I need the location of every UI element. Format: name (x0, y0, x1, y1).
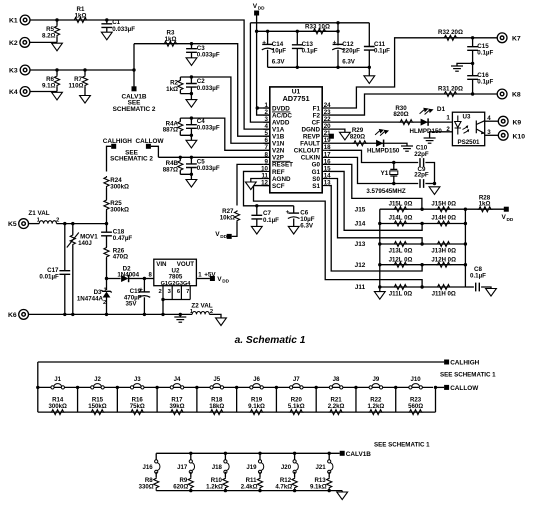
svg-text:V1B: V1B (272, 134, 285, 141)
jumper J18 (224, 460, 229, 474)
wire C15 upper lead (472, 38, 474, 47)
wire chain2 leg J21 bottom (328, 489, 330, 490)
wire CALHIGH rail (38, 361, 444, 363)
junction R33 rail2 (336, 30, 339, 33)
connector K3 (20, 65, 30, 75)
junction R2C2 bottom (190, 92, 193, 95)
resistor R6 (54, 75, 59, 87)
svg-text:7805: 7805 (169, 274, 183, 281)
svg-text:K4: K4 (9, 89, 18, 96)
svg-text:10kΩ: 10kΩ (220, 214, 235, 221)
wire AVDD vertical (250, 23, 269, 122)
svg-text:0.1µF: 0.1µF (477, 79, 493, 86)
wire S0 to J13 (329, 179, 422, 245)
jumper J16 (155, 460, 160, 474)
wire G0 to J15 (329, 164, 422, 209)
wire U2 VOUT (196, 278, 210, 280)
svg-text:J15L 0Ω: J15L 0Ω (389, 200, 413, 207)
LED D1 arrows (420, 108, 433, 114)
svg-text:J13H 0Ω: J13H 0Ω (431, 247, 456, 254)
junction C7 (255, 204, 258, 207)
svg-text:J2: J2 (94, 376, 101, 383)
svg-text:AVDD: AVDD (272, 119, 290, 126)
junction left bus J14 (378, 222, 381, 225)
junction chain1 row 3 (155, 386, 158, 389)
wire chain1 vertical 8 (355, 387, 357, 412)
wire C2 lower lead (190, 87, 192, 94)
terminal CALV1B (132, 86, 137, 91)
wire R4AC4 bottom (180, 135, 191, 140)
capacitor C12 (332, 44, 344, 49)
svg-text:8: 8 (265, 151, 269, 158)
svg-text:J13L 0Ω: J13L 0Ω (389, 247, 413, 254)
svg-text:J21: J21 (316, 464, 327, 471)
earth ground U3 (424, 138, 436, 143)
junction C14 top (266, 30, 269, 33)
junction chain2 bottom J18 (224, 489, 227, 492)
terminal VDD R27 (227, 234, 232, 239)
resistor J15H (436, 207, 451, 212)
jumper J5 (210, 384, 224, 389)
wire R4AC4 top to V2N (180, 118, 269, 150)
wire R6 bottom lead (56, 87, 58, 92)
svg-text:R33 10Ω: R33 10Ω (305, 24, 330, 31)
terminal CALLOW chain (444, 385, 449, 390)
svg-text:1kΩ: 1kΩ (165, 36, 177, 43)
wire MOV1 lower lead (72, 246, 74, 315)
junction chain2 bottom J19 (258, 489, 261, 492)
svg-text:SCHEMATIC 2: SCHEMATIC 2 (113, 106, 156, 113)
svg-text:5: 5 (265, 130, 269, 137)
junction K3/R6 (55, 68, 58, 71)
svg-text:300kΩ: 300kΩ (110, 206, 129, 213)
junction chain1 row 10 (434, 386, 437, 389)
wire chain2 leg J19 bottom (259, 489, 261, 490)
op-amp U1 AD7751 box (270, 87, 322, 193)
capacitor C15 (467, 47, 478, 51)
wire C9 to junction (425, 183, 434, 185)
wire C1 lower lead (106, 28, 108, 32)
wire F2 to R31 (329, 94, 502, 115)
svg-text:+5V: +5V (204, 271, 216, 278)
wire C14 lower lead (267, 50, 269, 68)
resistor R21 (328, 410, 343, 415)
wire C18 upper lead (106, 224, 108, 232)
svg-text:0.1µF: 0.1µF (263, 217, 279, 224)
resistor J13L (393, 242, 408, 247)
wire C5 upper lead (190, 157, 192, 164)
svg-text:S1: S1 (312, 183, 320, 190)
wire chain2 leg J20 top (294, 453, 296, 461)
wire R2C2 bottom (180, 94, 191, 100)
wire C1 lead (106, 20, 108, 23)
junction crystal caps ground (433, 182, 436, 185)
wire C3 lead (191, 44, 193, 49)
svg-text:620Ω: 620Ω (173, 484, 188, 491)
junction C17 bottom (63, 313, 66, 316)
svg-text:DD: DD (507, 217, 514, 222)
junction C15 C16 (471, 62, 474, 65)
wire to earth ground (457, 63, 473, 66)
wire chain2 leg J18 bottom (224, 489, 226, 490)
svg-text:820Ω: 820Ω (393, 111, 408, 118)
junction C12 bottom (336, 66, 339, 69)
wire CALV1B vertical (133, 44, 135, 87)
junction chain1 row 9 (394, 386, 397, 389)
svg-text:S0: S0 (312, 176, 320, 183)
resistor R15 (90, 410, 105, 415)
resistor R11 (257, 477, 262, 489)
svg-text:J13: J13 (355, 241, 366, 248)
svg-text:0.033µF: 0.033µF (112, 26, 135, 33)
svg-text:J11: J11 (355, 284, 366, 291)
svg-text:J20: J20 (281, 464, 292, 471)
junction unreg node (105, 277, 108, 280)
svg-text:AC/DC: AC/DC (272, 112, 292, 119)
svg-text:J17: J17 (177, 464, 188, 471)
svg-text:330Ω: 330Ω (139, 484, 154, 491)
wire FAULT line (329, 143, 407, 146)
svg-text:V2N: V2N (272, 148, 285, 155)
resistor J11H (436, 285, 451, 290)
wire C3 lower lead (191, 53, 193, 58)
junction U2 gnd bottom (161, 313, 164, 316)
svg-text:D1: D1 (437, 106, 446, 113)
wire VDD vertical to DVDD (257, 16, 270, 109)
junction C16 K8 line (471, 92, 474, 95)
wire C12 lower lead (337, 50, 339, 68)
resistor R17 (169, 410, 184, 415)
wire CALV1B rail (156, 452, 340, 454)
wire CALLOW to V2P line (151, 146, 159, 157)
svg-text:J9: J9 (372, 376, 379, 383)
svg-text:470Ω: 470Ω (113, 254, 128, 261)
svg-text:35V: 35V (125, 301, 137, 308)
wire Z2 to ground (209, 314, 221, 318)
svg-text:8.2Ω: 8.2Ω (42, 32, 56, 39)
svg-text:J8: J8 (333, 376, 340, 383)
ground chain2 (337, 492, 348, 500)
earth ground mid (451, 66, 463, 71)
svg-text:22pF: 22pF (414, 171, 429, 178)
wire U3 pin3 to K10 (485, 134, 499, 136)
svg-text:9: 9 (265, 158, 269, 165)
svg-text:2.4kΩ: 2.4kΩ (241, 484, 258, 491)
junction chain2 bottom J20 (293, 489, 296, 492)
resistor R13 (327, 477, 332, 489)
ground below C2 (186, 100, 197, 108)
junction right bus J14 (464, 222, 467, 225)
svg-text:2: 2 (158, 289, 161, 295)
wire R6 top lead (56, 70, 58, 75)
junction Y1 top (392, 161, 395, 164)
wire R2 upper lead (179, 77, 181, 80)
wire chain1 vertical 0 (37, 362, 39, 412)
svg-text:J4: J4 (174, 376, 181, 383)
svg-text:1.2kΩ: 1.2kΩ (367, 403, 384, 410)
svg-text:J12H 0Ω: J12H 0Ω (431, 257, 456, 264)
wire chain1 vertical 1 (77, 387, 79, 412)
wire C7 upper lead (256, 206, 258, 215)
svg-text:9.1kΩ: 9.1kΩ (310, 484, 327, 491)
resistor R10 (223, 477, 228, 489)
wire R2C2 top to V1N (180, 77, 269, 143)
wire chain1 vertical 4 (196, 387, 198, 412)
junction chain1 row 6 (275, 386, 278, 389)
wire U3 pin2 to ground (430, 132, 453, 138)
wire C6 lower lead (293, 219, 295, 227)
ground C6 (288, 226, 299, 234)
junction D3 bottom (105, 313, 108, 316)
svg-text:Y1: Y1 (380, 170, 388, 177)
capacitor C1 (101, 24, 112, 28)
terminal VDD top (254, 11, 259, 16)
junction C5 top (190, 156, 193, 159)
wire chain1 vertical 2 (116, 387, 118, 412)
svg-text:F2: F2 (313, 112, 321, 119)
junction R4AC4 bottom (190, 134, 193, 137)
resistor R16 (130, 410, 145, 415)
wire chain1 vertical 9 (395, 387, 397, 412)
junction J14 middle (420, 222, 423, 225)
jumper J10 (409, 384, 423, 389)
svg-text:CALV1B: CALV1B (346, 451, 371, 458)
svg-text:22pF: 22pF (414, 151, 429, 158)
svg-text:DD: DD (222, 279, 229, 284)
svg-text:V2P: V2P (272, 155, 284, 162)
svg-text:1kΩ: 1kΩ (479, 201, 491, 208)
ground below K2 wire (52, 43, 63, 51)
wire decoupling ground rail (268, 66, 370, 68)
wire chain1 jumper row (38, 386, 433, 388)
resistor J15L (393, 207, 408, 212)
junction chain1 row 4 (195, 386, 198, 389)
resistor R22 (368, 410, 383, 415)
wire chain2 leg J17 bottom (190, 489, 192, 490)
resistor J13H (436, 242, 451, 247)
wire chain2 leg J20 bottom (294, 489, 296, 490)
svg-text:6.3V: 6.3V (272, 59, 286, 66)
svg-text:Z1 VAL: Z1 VAL (28, 210, 49, 217)
svg-text:SEE SCHEMATIC 1: SEE SCHEMATIC 1 (374, 441, 430, 448)
wire C10 to corner (425, 163, 434, 184)
svg-text:F1: F1 (313, 105, 321, 112)
junction DVDD pin1 (256, 106, 259, 109)
svg-text:FAULT: FAULT (300, 141, 320, 148)
wire K2 to R5 (30, 41, 57, 43)
wire C5 lower lead (190, 168, 192, 175)
svg-text:V1N: V1N (272, 141, 285, 148)
svg-text:J10: J10 (411, 376, 422, 383)
resistor R25 (104, 199, 109, 211)
jumper J6 (250, 384, 264, 389)
wire C18 to R26 (106, 236, 108, 247)
wire RESET to R27 (237, 164, 263, 205)
svg-text:R31 20Ω: R31 20Ω (438, 85, 463, 92)
wire chain2 leg J21 mid (328, 472, 330, 478)
opto transistor (476, 121, 484, 134)
wire C4 lower lead (190, 128, 192, 135)
resistor R33 (312, 29, 327, 34)
junction K3/CALV1B (132, 68, 135, 71)
connector K4 (20, 87, 30, 97)
svg-text:J15H 0Ω: J15H 0Ω (431, 200, 456, 207)
wire chain1 vertical 5 (236, 387, 238, 412)
capacitor C19 (139, 292, 151, 297)
wire J11 to C8 (465, 286, 474, 288)
jumper J20 (293, 460, 298, 474)
wire R7 top lead (84, 70, 86, 75)
svg-text:2: 2 (103, 300, 106, 306)
wire CF line (329, 121, 453, 123)
svg-text:1.2kΩ: 1.2kΩ (206, 484, 223, 491)
wire C7 lower lead (256, 219, 258, 226)
wire C11 upper lead (368, 23, 370, 46)
svg-text:0.033µF: 0.033µF (197, 125, 220, 132)
junction chain2 top J20 (293, 452, 296, 455)
svg-text:J19: J19 (246, 464, 257, 471)
svg-text:140J: 140J (78, 240, 92, 247)
connector K8 (497, 89, 507, 99)
wire chain1 bottom rail (38, 411, 436, 413)
svg-text:G1: G1 (312, 169, 321, 176)
resistor R23 (408, 410, 423, 415)
wire CALHIGH to R24 (107, 146, 112, 171)
svg-text:J1: J1 (54, 376, 61, 383)
svg-text:1N4004: 1N4004 (117, 271, 139, 278)
jumper J19 (258, 460, 263, 474)
wire MOV1 upper lead (72, 224, 74, 235)
terminal CALHIGH (111, 144, 116, 149)
wire C8 to ground (481, 287, 491, 289)
wire row J13 (380, 243, 466, 245)
svg-text:5.1kΩ: 5.1kΩ (288, 403, 305, 410)
resistor R20 (289, 410, 304, 415)
svg-text:3.579545MHZ: 3.579545MHZ (366, 188, 405, 195)
svg-text:0.01µF: 0.01µF (39, 273, 59, 280)
svg-text:K2: K2 (9, 40, 18, 47)
svg-text:K7: K7 (512, 35, 521, 42)
opto LED arrows (463, 125, 470, 133)
wire C19 upper lead (143, 279, 145, 292)
svg-text:DGND: DGND (301, 126, 320, 133)
resistor R12 (292, 477, 297, 489)
junction chain2 top J18 (224, 452, 227, 455)
inductor Z1 (39, 221, 56, 224)
svg-text:K8: K8 (512, 92, 521, 99)
jumper J4 (170, 384, 184, 389)
wire C2 leads (190, 77, 192, 84)
svg-text:CLKIN: CLKIN (301, 155, 321, 162)
resistor J14L (393, 221, 408, 226)
wire Y1 leads (393, 163, 395, 170)
capacitor C16 (467, 76, 478, 80)
svg-text:1N4744A: 1N4744A (77, 296, 104, 303)
junction Y1 bottom (392, 182, 395, 185)
svg-text:SCF: SCF (272, 183, 285, 190)
svg-text:R32 20Ω: R32 20Ω (438, 29, 463, 36)
jumper J3 (130, 384, 144, 389)
wire chain2 ground stub (341, 491, 343, 492)
earth ground fault LED (401, 146, 413, 151)
svg-text:J6: J6 (253, 376, 260, 383)
wire chain2 leg J18 mid (224, 472, 226, 478)
wire chain2 leg J16 bottom (155, 489, 157, 490)
capacitor C9 (420, 179, 424, 188)
svg-text:9.1Ω: 9.1Ω (42, 82, 56, 89)
resistor R19 (249, 410, 264, 415)
wire R2 lower lead (179, 91, 181, 94)
svg-text:+: + (286, 209, 290, 216)
crystal Y1 (390, 169, 398, 176)
svg-text:+: + (333, 40, 337, 47)
svg-text:J12L 0Ω: J12L 0Ω (389, 257, 413, 264)
svg-text:K3: K3 (9, 68, 18, 75)
svg-text:4: 4 (265, 123, 269, 130)
jumper J2 (91, 384, 105, 389)
junction C11 bottom (368, 66, 371, 69)
wire K3 line (30, 69, 134, 71)
wire chain1 vertical 10 (435, 387, 437, 412)
wire row J12 (380, 264, 466, 266)
wire R4A lower lead (179, 132, 181, 135)
junction rail1 R33 (336, 21, 339, 24)
wire K4 to R6 (30, 91, 57, 93)
wire R4A upper lead (179, 118, 181, 121)
wire C14 upper lead (267, 31, 269, 44)
resistor J14H (436, 221, 451, 226)
svg-text:PS2501: PS2501 (457, 139, 480, 146)
wire unreg to D2 (107, 278, 121, 280)
resistor R24 (104, 176, 109, 188)
capacitor C11 (364, 47, 375, 51)
ground AGND (245, 182, 256, 190)
svg-text:J14: J14 (355, 221, 366, 228)
svg-text:DVDD: DVDD (272, 105, 290, 112)
wire SCF to J11 (254, 186, 423, 287)
svg-text:RESET: RESET (272, 162, 293, 169)
svg-text:887Ω: 887Ω (163, 127, 178, 134)
LED fault (376, 140, 384, 147)
wire chain2 leg J20 mid (294, 472, 296, 478)
resistor R4B (178, 160, 183, 172)
wire AGND to ground (251, 179, 263, 183)
svg-text:1kΩ: 1kΩ (75, 12, 87, 19)
resistor R9 (188, 477, 193, 489)
wire to U2 VIN (144, 278, 153, 280)
svg-text:7: 7 (186, 289, 189, 295)
svg-text:220µF: 220µF (342, 48, 360, 55)
ground below C3 (186, 58, 197, 66)
junction R4BC5 bottom (190, 173, 193, 176)
svg-text:0.033µF: 0.033µF (197, 165, 220, 172)
wire C16 upper lead (472, 63, 474, 75)
junction C17 top (63, 222, 66, 225)
svg-text:75kΩ: 75kΩ (130, 403, 145, 410)
wire C11 lower lead (368, 51, 370, 68)
zener D3 (101, 290, 111, 297)
jumper J17 (189, 460, 194, 474)
diode D2 (121, 275, 129, 282)
wire R26 to unreg node (106, 258, 108, 279)
junction C13 bottom (296, 66, 299, 69)
svg-text:J5: J5 (213, 376, 220, 383)
svg-text:6: 6 (265, 137, 269, 144)
connector K2 (20, 38, 30, 48)
ground DGND (340, 132, 351, 140)
svg-text:HLMPD150: HLMPD150 (367, 147, 400, 154)
wire C16 lower lead (472, 80, 474, 94)
